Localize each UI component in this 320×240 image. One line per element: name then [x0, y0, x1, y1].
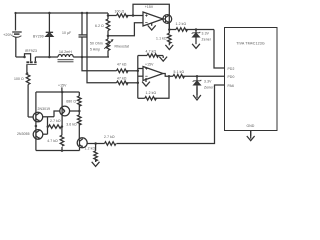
wire rheostat top to opamp jog	[108, 23, 143, 36]
capacitor C1	[79, 13, 88, 57]
wire feedback top	[133, 4, 169, 29]
resistor R9 5.1k	[173, 74, 184, 78]
resistor R15 2.7k out	[105, 142, 117, 146]
op-amp U1	[143, 12, 163, 26]
wire opamp2 plus input	[138, 75, 143, 77]
battery V1	[12, 32, 22, 57]
wire 680 to node	[78, 105, 80, 115]
transistor Q2 2N3055	[33, 130, 47, 140]
svg-text:2.7 kΩ: 2.7 kΩ	[50, 119, 61, 123]
svg-text:1.1 kΩ: 1.1 kΩ	[156, 37, 167, 41]
svg-text:2N3055: 2N3055	[17, 132, 30, 136]
svg-text:10 µF: 10 µF	[62, 31, 71, 35]
resistor R17 1.1k vertical	[168, 30, 172, 46]
junction opamp2 out	[168, 75, 171, 78]
feedback resistor R8 1.2k bottom	[138, 76, 169, 100]
wire junction to 2.7k	[96, 143, 105, 145]
svg-text:IRF9Z3: IRF9Z3	[25, 49, 37, 53]
svg-text:100 Ω: 100 Ω	[14, 77, 24, 81]
svg-text:+15V: +15V	[145, 62, 154, 66]
ground box	[247, 131, 255, 141]
svg-text:TIVA TM4C123G: TIVA TM4C123G	[236, 42, 265, 46]
junction zener1	[195, 28, 198, 31]
wire feedback vertical	[137, 56, 139, 99]
junction mosfet left	[23, 56, 26, 59]
svg-text:Rheostat: Rheostat	[115, 45, 130, 49]
svg-text:4.7 kΩ: 4.7 kΩ	[146, 50, 157, 54]
junction q2 wire	[47, 125, 50, 128]
wire opamp2 out	[163, 74, 173, 77]
svg-text:3.3V: 3.3V	[202, 32, 210, 36]
svg-text:680 Ω: 680 Ω	[66, 99, 76, 103]
ground opamp1	[148, 23, 156, 30]
wire +15V corner down	[78, 92, 80, 96]
resistor R11 2.7k	[49, 125, 62, 129]
inductor L1	[58, 55, 74, 62]
transistor Q5	[77, 138, 95, 151]
resistor R6 47k	[117, 81, 129, 85]
svg-text:1.2 kΩ: 1.2 kΩ	[176, 22, 187, 26]
wire bottom rail left	[16, 56, 25, 58]
wire 47k1 to node	[126, 70, 138, 72]
wire q2 bottom rail	[36, 150, 80, 152]
svg-text:PD0: PD0	[228, 75, 235, 79]
wire q4 base	[54, 111, 60, 117]
resistor R12 680	[78, 96, 82, 106]
junction q4 collector	[61, 91, 64, 94]
wire 1.2k to zener node	[186, 29, 215, 31]
svg-text:PD2: PD2	[228, 67, 235, 71]
svg-text:2.7 kΩ: 2.7 kΩ	[104, 135, 115, 139]
svg-text:+20V: +20V	[3, 32, 13, 37]
wire left rail down	[35, 92, 37, 151]
wire bottom rail right	[73, 56, 109, 58]
junction node q4 emitter	[78, 110, 81, 113]
junction feedback node	[132, 14, 135, 17]
wire 47k feed 1	[82, 57, 117, 71]
svg-text:5 Amp: 5 Amp	[90, 48, 100, 52]
svg-text:2N3019: 2N3019	[38, 107, 51, 111]
resistor R1 100ohm	[117, 14, 129, 18]
transistor Q4	[60, 92, 80, 127]
wire 47k2 to node	[126, 82, 138, 84]
svg-text:3.3V: 3.3V	[204, 80, 212, 84]
wire gnd pin	[250, 131, 252, 137]
junction q1 emitter	[35, 125, 38, 128]
transistor Q1 2N3019	[28, 112, 47, 122]
resistor R2 6.2ohm	[106, 19, 110, 36]
ground opamp2	[142, 78, 150, 86]
svg-text:4.7 kΩ: 4.7 kΩ	[47, 139, 58, 143]
wire PA6 route	[117, 85, 225, 144]
svg-text:47 kΩ: 47 kΩ	[117, 63, 127, 67]
ground zener1	[192, 44, 200, 49]
wire PD2 route	[214, 30, 225, 69]
svg-text:GND: GND	[247, 124, 255, 128]
wire +15V stub	[61, 87, 63, 92]
svg-text:1.2 kΩ: 1.2 kΩ	[146, 91, 157, 95]
junction cap bottom	[81, 56, 84, 59]
resistor R5 47k	[117, 69, 129, 73]
resistor R4 1.2k	[176, 28, 187, 32]
wire bottom rail mid	[35, 56, 58, 58]
junction zener2	[196, 75, 199, 78]
resistor R13 3.6k	[78, 115, 82, 125]
junction cap top	[81, 12, 84, 15]
svg-text:BY299: BY299	[33, 35, 44, 39]
mosfet Q6	[25, 54, 37, 73]
wire opamp2 minus input	[138, 68, 143, 70]
microcontroller box U3 TIVA	[225, 28, 278, 131]
transistor Q7	[163, 15, 172, 24]
wire left vertical battery top	[15, 13, 17, 31]
junction transistor out	[168, 28, 171, 31]
wire top rail	[16, 12, 109, 14]
resistor R10 100ohm left	[26, 73, 30, 117]
wire 47k feed 2	[87, 57, 117, 83]
wire q1 emitter to q2 base	[48, 117, 55, 134]
ground 1.2k	[92, 162, 100, 167]
wire 3.6k to q5	[78, 124, 80, 139]
op-amp U2	[143, 67, 163, 81]
diode D1 BY299	[46, 13, 53, 57]
svg-text:1.2 kΩ: 1.2 kΩ	[85, 146, 96, 150]
wire to 100 ohm	[108, 15, 117, 17]
svg-text:6.2 Ω: 6.2 Ω	[95, 24, 104, 28]
plus15V rail bottom section	[36, 91, 79, 93]
junction 47k2 node	[137, 82, 140, 85]
junction 4.7k bottom	[61, 149, 64, 152]
svg-text:47 kΩ: 47 kΩ	[117, 76, 127, 80]
zener diode D2	[192, 30, 201, 45]
svg-text:5.1 kΩ: 5.1 kΩ	[174, 70, 185, 74]
junction q5 out	[94, 142, 97, 145]
junction 2.7k right	[61, 125, 64, 128]
junction diode bottom	[48, 56, 51, 59]
junction rail corner	[14, 12, 16, 14]
svg-text:1A 2mH: 1A 2mH	[59, 50, 72, 54]
wire parallel vertical	[86, 13, 88, 57]
wire jog at rail end	[107, 13, 109, 19]
junction rheostat top	[107, 35, 110, 38]
wire to 1.2k	[169, 29, 176, 31]
ground zener2	[193, 86, 201, 100]
zener diode D3	[193, 76, 202, 95]
svg-text:100 Ω: 100 Ω	[115, 10, 125, 14]
svg-text:Zener: Zener	[202, 38, 212, 42]
ground fb resistor	[159, 56, 167, 62]
svg-text:Zener: Zener	[204, 86, 214, 90]
junction node rail end	[107, 14, 110, 17]
svg-text:PA6: PA6	[228, 84, 235, 88]
resistor R16 1.2k down	[94, 144, 98, 163]
feedback resistor R7 4.7k top	[138, 54, 163, 58]
svg-text:50 Ohm: 50 Ohm	[90, 42, 103, 46]
junction 47k1 node	[137, 70, 140, 73]
wire 100ohm to opamp	[126, 15, 143, 17]
ground 1.1k	[165, 45, 173, 50]
svg-text:+15V: +15V	[58, 84, 67, 88]
wire transistor emitter down	[168, 23, 170, 30]
svg-text:+15V: +15V	[145, 5, 154, 9]
junction wire top	[86, 12, 89, 15]
junction diode top	[48, 12, 51, 15]
wire 5.1k to box PD0	[183, 75, 225, 77]
svg-text:3.6 kΩ: 3.6 kΩ	[66, 123, 77, 127]
resistor R14 4.7k vertical	[60, 127, 64, 151]
rheostat R3	[104, 36, 113, 57]
